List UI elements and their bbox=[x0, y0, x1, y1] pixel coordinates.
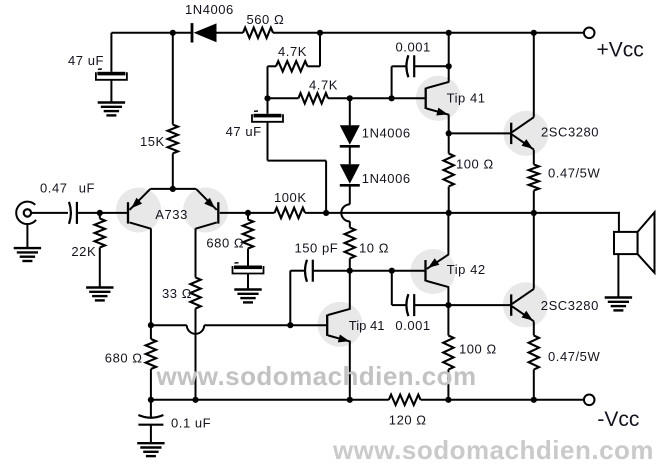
svg-text:1N4006: 1N4006 bbox=[185, 2, 234, 17]
svg-text:680 Ω: 680 Ω bbox=[105, 351, 143, 366]
node bbox=[264, 95, 270, 101]
transistor Q1 A733 bbox=[127, 202, 129, 223]
capacitor 0.47uF bbox=[69, 202, 71, 224]
wire bbox=[448, 187, 450, 213]
transistor Q4 Tip41 bbox=[326, 315, 328, 336]
wire emitter bbox=[349, 342, 351, 400]
wire bbox=[77, 212, 100, 214]
transistor Q5 2SC3280 bbox=[510, 123, 512, 144]
wire bbox=[618, 212, 620, 232]
wire bbox=[305, 212, 620, 214]
wire emitter bbox=[447, 213, 449, 254]
wire emitters bbox=[150, 188, 196, 190]
wire collector bbox=[448, 33, 450, 82]
ground bbox=[605, 296, 632, 298]
resistor 100 top bbox=[444, 154, 454, 187]
svg-text:0.47 uF: 0.47 uF bbox=[40, 181, 95, 196]
ground bbox=[137, 442, 164, 444]
wire bbox=[349, 221, 351, 227]
capacitor 0.1uF bbox=[138, 415, 163, 418]
wire collector bbox=[349, 271, 351, 309]
svg-text:22K: 22K bbox=[71, 244, 96, 259]
transistor halo bbox=[416, 76, 461, 121]
wire bbox=[195, 309, 197, 400]
resistor 4.7K b bbox=[298, 93, 328, 103]
wire bbox=[414, 304, 448, 306]
wire bbox=[268, 160, 327, 162]
node bbox=[192, 397, 198, 403]
svg-text:100 Ω: 100 Ω bbox=[459, 342, 497, 357]
speaker bbox=[614, 232, 638, 254]
wire bbox=[150, 425, 152, 443]
diode D2 1N4006 bbox=[340, 125, 360, 145]
wire bbox=[349, 146, 351, 164]
node bbox=[170, 30, 176, 36]
wire bbox=[447, 370, 449, 400]
wire bbox=[173, 32, 192, 34]
node bbox=[347, 397, 353, 403]
svg-text:150 pF: 150 pF bbox=[295, 241, 339, 256]
resistor 560 bbox=[243, 28, 273, 38]
node bbox=[245, 210, 251, 216]
ground bbox=[234, 288, 261, 290]
capacitor 0.001 top bbox=[406, 55, 408, 77]
svg-text:Tip 42: Tip 42 bbox=[447, 262, 486, 277]
svg-text:0.47/5W: 0.47/5W bbox=[548, 349, 600, 364]
svg-text:47 uF: 47 uF bbox=[68, 53, 104, 68]
svg-text:1N4006: 1N4006 bbox=[362, 171, 411, 186]
node bbox=[287, 322, 293, 328]
wire bbox=[313, 270, 350, 272]
svg-text:-Vcc: -Vcc bbox=[597, 408, 639, 431]
resistor 10 bbox=[345, 228, 355, 259]
wire left collector bbox=[150, 228, 152, 325]
node bbox=[389, 95, 395, 101]
svg-text:0.001: 0.001 bbox=[395, 318, 430, 333]
wire bbox=[248, 212, 275, 214]
svg-text:100K: 100K bbox=[274, 190, 307, 205]
transistor halo bbox=[503, 282, 548, 327]
svg-text:1N4006: 1N4006 bbox=[362, 126, 411, 141]
wire bbox=[99, 248, 101, 288]
capacitor 680 branch bbox=[235, 262, 239, 264]
wire emitter bbox=[448, 115, 450, 134]
wire collector bbox=[533, 33, 535, 117]
node bbox=[347, 95, 353, 101]
capacitor 0.001 bottom bbox=[406, 294, 408, 316]
ground bbox=[98, 101, 125, 103]
node bbox=[531, 397, 537, 403]
svg-text:100 Ω: 100 Ω bbox=[456, 157, 494, 172]
wire bbox=[110, 33, 112, 72]
capacitor 150pF bbox=[305, 260, 307, 282]
node bbox=[389, 268, 395, 274]
wire hop over mid rail bbox=[341, 204, 350, 221]
wire bbox=[392, 304, 407, 306]
resistor 120 bbox=[389, 395, 421, 405]
wire bbox=[350, 270, 426, 272]
svg-text:4.7K: 4.7K bbox=[278, 44, 307, 59]
resistor 100 bottom bbox=[443, 336, 453, 370]
svg-text:4.7K: 4.7K bbox=[309, 77, 338, 92]
wire bbox=[391, 66, 393, 98]
transistor Q3 Tip41 bbox=[425, 88, 427, 109]
node bbox=[446, 30, 452, 36]
svg-text:Tip 41: Tip 41 bbox=[447, 91, 486, 106]
wire bbox=[267, 66, 269, 98]
transistor halo bbox=[411, 249, 456, 294]
wire bbox=[307, 65, 320, 67]
wire collector bbox=[533, 213, 535, 289]
resistor 33 bbox=[190, 278, 200, 309]
wire bbox=[100, 212, 128, 214]
node bbox=[97, 210, 103, 216]
wire bbox=[414, 65, 449, 67]
resistor 680 right bbox=[243, 220, 253, 249]
wire bbox=[533, 370, 535, 400]
wire bbox=[290, 270, 305, 272]
wire bbox=[172, 153, 174, 189]
wire bbox=[449, 132, 512, 134]
svg-text:680 Ω: 680 Ω bbox=[206, 236, 244, 251]
resistor 4.7K a bbox=[276, 61, 307, 71]
wire bbox=[31, 212, 68, 214]
terminal +Vcc bbox=[584, 28, 595, 39]
wire emitter bbox=[533, 150, 535, 165]
wire bbox=[448, 133, 450, 153]
diode D3 1N4006 bbox=[340, 164, 360, 184]
wire bbox=[110, 80, 112, 102]
wire bbox=[391, 271, 393, 305]
wire bbox=[204, 324, 327, 326]
terminal -Vcc bbox=[584, 395, 595, 406]
node bbox=[445, 302, 451, 308]
svg-text:www.sodomachdien.com: www.sodomachdien.com bbox=[155, 361, 476, 391]
wire bbox=[247, 249, 249, 266]
node bbox=[317, 30, 323, 36]
wire bbox=[247, 274, 249, 289]
svg-text:2SC3280: 2SC3280 bbox=[541, 298, 599, 313]
wire bbox=[150, 400, 152, 417]
transistor Q2 A733 bbox=[217, 202, 219, 223]
wire bbox=[349, 185, 351, 204]
wire bbox=[328, 97, 426, 99]
svg-text:+Vcc: +Vcc bbox=[597, 38, 644, 61]
node bbox=[446, 63, 452, 69]
wire +Vcc rail bbox=[320, 32, 584, 34]
wire bbox=[273, 32, 320, 34]
node bbox=[148, 397, 154, 403]
wire bbox=[533, 191, 535, 213]
wire bbox=[392, 65, 407, 67]
resistor 0.47 top bbox=[529, 165, 539, 191]
wire bbox=[150, 325, 152, 339]
transistor halo bbox=[504, 111, 549, 156]
wire bbox=[220, 212, 248, 214]
wire bbox=[325, 161, 327, 213]
node bbox=[170, 186, 176, 192]
connector input jack bbox=[16, 202, 36, 224]
wire bbox=[150, 369, 152, 400]
resistor 680 left bbox=[146, 339, 156, 369]
wire bbox=[421, 399, 584, 401]
wire bbox=[349, 98, 351, 125]
svg-text:0.47/5W: 0.47/5W bbox=[548, 166, 600, 181]
wire bbox=[172, 33, 174, 125]
node bbox=[148, 322, 154, 328]
wire bbox=[617, 254, 619, 297]
transistor halo bbox=[318, 302, 363, 347]
wire bbox=[151, 399, 389, 401]
svg-text:A733: A733 bbox=[155, 207, 188, 222]
node bbox=[347, 268, 353, 274]
wire bbox=[319, 33, 321, 67]
transistor halo bbox=[183, 188, 228, 233]
wire bbox=[247, 213, 249, 220]
svg-text:Tip 41: Tip 41 bbox=[349, 318, 385, 333]
ground bbox=[86, 286, 113, 288]
node bbox=[446, 130, 452, 136]
wire bbox=[448, 304, 511, 306]
transistor Q6 Tip42 bbox=[424, 260, 426, 281]
wire bbox=[111, 32, 172, 34]
svg-text:10 Ω: 10 Ω bbox=[359, 240, 389, 255]
wire bbox=[99, 213, 101, 219]
wire bbox=[289, 271, 291, 326]
svg-text:2SC3280: 2SC3280 bbox=[541, 125, 599, 140]
svg-text:0.001: 0.001 bbox=[396, 40, 431, 55]
resistor 100K bbox=[275, 208, 306, 218]
wire hop bbox=[187, 325, 204, 334]
diode D1 1N4006 bbox=[191, 23, 194, 42]
svg-text:120 Ω: 120 Ω bbox=[389, 413, 427, 428]
svg-text:560 Ω: 560 Ω bbox=[247, 12, 285, 27]
svg-text:15K: 15K bbox=[140, 134, 165, 149]
wire bbox=[151, 324, 187, 326]
wire collector bbox=[447, 287, 449, 335]
node bbox=[446, 210, 452, 216]
resistor 15K bbox=[168, 125, 178, 154]
capacitor 47uF mid bbox=[254, 110, 258, 112]
svg-text:47 uF: 47 uF bbox=[226, 124, 262, 139]
svg-text:0.1 uF: 0.1 uF bbox=[171, 415, 211, 430]
node bbox=[323, 210, 329, 216]
resistor 22K bbox=[95, 219, 105, 248]
transistor halo bbox=[116, 188, 161, 233]
svg-text:33 Ω: 33 Ω bbox=[162, 286, 192, 301]
resistor 0.47 bottom bbox=[529, 336, 539, 370]
wire bbox=[268, 65, 277, 67]
wire emitter bbox=[533, 322, 535, 336]
node bbox=[445, 397, 451, 403]
transistor Q7 2SC3280 bbox=[510, 294, 512, 315]
wire bbox=[268, 97, 299, 99]
wire bbox=[349, 259, 351, 271]
wire bbox=[216, 32, 244, 34]
wire bbox=[267, 98, 269, 114]
svg-text:www.sodomachdien.com: www.sodomachdien.com bbox=[332, 435, 654, 465]
node bbox=[531, 210, 537, 216]
wire bbox=[267, 122, 269, 160]
ground bbox=[14, 247, 41, 249]
node bbox=[531, 30, 537, 36]
wire bbox=[26, 224, 28, 248]
wire right collector bbox=[195, 228, 197, 277]
capacitor C1 47uF bbox=[98, 68, 102, 70]
